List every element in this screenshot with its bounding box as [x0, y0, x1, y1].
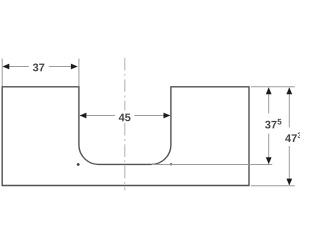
extension line mid right (cutout bottom level) — [152, 164, 273, 166]
extension line cutout-left-wall upward — [78, 59, 80, 87]
dimension 47.3 line (vertical) — [288, 88, 290, 128]
dimension 45 arrow left — [80, 113, 87, 119]
centerline upper segment — [124, 58, 126, 110]
dimension 45 line — [80, 115, 115, 117]
corner marker dot left — [77, 163, 80, 166]
dimension 37 arrow right — [71, 64, 78, 70]
dimension 47.3 arrow down — [286, 179, 292, 186]
centerline lower segment — [124, 123, 126, 190]
dimension 37.5 line (vertical) — [268, 88, 270, 114]
countertop outline with U-shaped cutout — [2, 87, 249, 186]
dimension 47.3 arrow up — [286, 87, 292, 94]
extension line left (x=2.2 above slab) — [1, 59, 3, 87]
dimension 37 arrow left — [3, 64, 10, 70]
dimension 45 arrow right — [164, 113, 171, 119]
dimension 37 label — [33, 64, 45, 72]
extension line top right (y=86.8) — [251, 86, 295, 88]
dimension 37.5 arrow up — [266, 87, 272, 94]
corner marker dot right — [170, 163, 172, 165]
dimension 37 line — [3, 66, 29, 68]
dimension 37.5 label — [265, 119, 281, 129]
dimension 45 label — [119, 114, 131, 122]
extension line bottom right (slab bottom level) — [251, 185, 295, 187]
dimension 47.3 label — [285, 132, 301, 142]
dimension 37.5 arrow down — [266, 157, 272, 164]
